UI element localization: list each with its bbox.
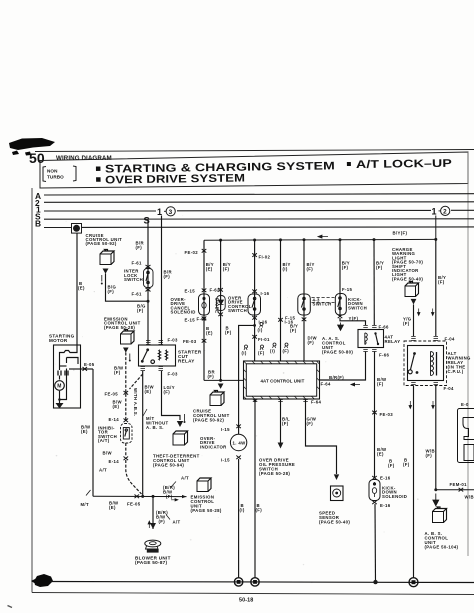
- svg-text:M/T: M/T: [81, 502, 89, 507]
- svg-text:MOTOR: MOTOR: [49, 338, 68, 343]
- pin pair (I)(F) on direct wire: [270, 343, 289, 354]
- svg-text:(I): (I): [270, 349, 275, 354]
- svg-text:(PAGE 50-87): (PAGE 50-87): [135, 560, 168, 565]
- ABS control unit connector (3D box): [433, 507, 447, 523]
- svg-text:E-0: E-0: [461, 402, 469, 407]
- svg-text:(F): (F): [258, 351, 265, 356]
- svg-text:(PAGE 50-28): (PAGE 50-28): [259, 471, 290, 476]
- connector FE-05 on wire: [135, 495, 140, 499]
- blower unit symbol: [145, 540, 161, 553]
- wire S to interlock switch: [147, 219, 149, 345]
- svg-text:50-18: 50-18: [239, 598, 253, 604]
- svg-text:(PAGE 50-28): (PAGE 50-28): [191, 508, 222, 513]
- svg-text:C.P.U.): C.P.U.): [448, 369, 464, 374]
- svg-text:FI-02: FI-02: [259, 255, 271, 260]
- svg-text:(E): (E): [206, 331, 213, 336]
- dashed wire B/W(F) emission to inhibitor: [125, 353, 127, 421]
- wire B(F) from 4AT unit to ground bus: [254, 399, 263, 578]
- svg-text:(PAGE 50-80): (PAGE 50-80): [322, 350, 353, 355]
- svg-text:F-61: F-61: [132, 292, 142, 297]
- ground bus wire: [50, 582, 474, 583]
- svg-text:F-03: F-03: [168, 338, 178, 343]
- connector FE-02: [185, 249, 207, 255]
- wire LG/Y(F) from relay to theft-deterrent unit: [162, 371, 181, 420]
- arrow to ABS unit: [433, 494, 439, 506]
- svg-text:F-04: F-04: [444, 386, 454, 391]
- svg-text:4AT CONTROL UNIT: 4AT CONTROL UNIT: [261, 378, 305, 383]
- connector I-16 bottom: [252, 316, 267, 325]
- svg-text:E-05: E-05: [84, 362, 95, 367]
- wire B/W(E) motor branch down: [92, 369, 94, 496]
- svg-text:(F): (F): [164, 390, 171, 395]
- svg-text:INDICATOR: INDICATOR: [200, 444, 227, 449]
- svg-text:F-61: F-61: [132, 261, 142, 266]
- svg-text:(A/T): (A/T): [98, 438, 110, 443]
- svg-text:(E): (E): [78, 286, 85, 291]
- connector I-15 (bottom): [236, 456, 241, 460]
- title box: [40, 152, 468, 188]
- svg-text:(F): (F): [403, 321, 410, 326]
- svg-text:E-14: E-14: [109, 459, 120, 464]
- branch to overdrive indicator: [239, 325, 255, 426]
- svg-text:F-64: F-64: [321, 382, 331, 387]
- BOTTOM: [50, 578, 474, 587]
- FOURAT: [200, 361, 350, 578]
- cruise control unit connector mid (3D box): [210, 391, 224, 406]
- svg-text:(PAGE 50-92): (PAGE 50-92): [86, 241, 117, 246]
- overdrive indicator lamp: [230, 434, 246, 450]
- 4AT control unit U1: [244, 361, 320, 399]
- junction at interlock output: [147, 300, 150, 303]
- svg-text:F-04: F-04: [445, 337, 455, 342]
- svg-text:(F): (F): [166, 494, 173, 499]
- connector E-05: [81, 362, 95, 371]
- cruise control unit connector (3D box): [100, 250, 114, 265]
- svg-text:(F): (F): [208, 374, 215, 379]
- wire W/B(F) relay to ABS unit: [435, 386, 437, 490]
- NON TURBO bracket label: [43, 166, 76, 182]
- main feed wire (B/Y) from node 1-2: [204, 216, 437, 242]
- 4AT relay: [358, 326, 384, 352]
- svg-text:F-62: F-62: [210, 288, 220, 293]
- svg-text:E-15: E-15: [185, 289, 196, 294]
- ground arrow in motor: [56, 403, 64, 409]
- svg-text:(F): (F): [426, 453, 433, 458]
- bus line 1 (mid): [177, 209, 431, 211]
- wire FEM-01 branch: [434, 482, 474, 500]
- svg-text:(E): (E): [109, 505, 116, 510]
- MIDTOP: [171, 240, 408, 582]
- arrow from emission box down: [123, 348, 129, 353]
- connector F-61 (bottom): [132, 288, 151, 297]
- connector FI-01: [252, 335, 270, 342]
- svg-text:SOLENOID: SOLENOID: [382, 494, 407, 499]
- svg-text:B/R(F): B/R(F): [329, 375, 344, 380]
- svg-text:(PAGE 50-92): (PAGE 50-92): [193, 418, 224, 423]
- connector ring (B(F) wire): [251, 578, 259, 586]
- svg-text:WITH A.B.S.: WITH A.B.S.: [133, 388, 138, 417]
- svg-text:F-15: F-15: [342, 287, 352, 292]
- title line 1: STARTING & CHARGING SYSTEM / A/T LOCK-UP: [96, 158, 452, 187]
- wire G/W(F) to speed sensor: [306, 399, 351, 525]
- connector F-62 (top): [210, 288, 223, 293]
- overdrive indicator branch wire: [200, 425, 247, 579]
- svg-text:(F): (F): [225, 330, 232, 335]
- connector E-14 (top): [109, 417, 129, 422]
- connector F-62 (bottom): [197, 313, 223, 322]
- svg-text:M: M: [57, 384, 61, 390]
- wire B/Y(F) diode branch: [220, 240, 222, 380]
- svg-text:(F): (F): [342, 265, 349, 270]
- emission control unit connector lower (3D box): [197, 478, 211, 492]
- diode D1: [215, 296, 226, 314]
- svg-text:FE-03: FE-03: [380, 412, 394, 417]
- bus line 1 (right of node 1-2): [451, 209, 474, 211]
- svg-text:(F): (F): [388, 463, 395, 468]
- svg-text:WIRING DIAGRAM: WIRING DIAGRAM: [56, 155, 112, 162]
- svg-text:SOLENOID: SOLENOID: [171, 310, 196, 315]
- wire label B(E): [78, 281, 85, 291]
- BORDERS: [8, 152, 474, 608]
- connector E-16 (bottom): [372, 501, 391, 509]
- 4AT unit bottom pin hatches: [253, 400, 308, 402]
- wire B/Y(E) overdrive cancel solenoid: [203, 240, 205, 380]
- LEFTCOL: [49, 216, 222, 566]
- svg-text:(I): (I): [242, 351, 247, 356]
- svg-text:I-15: I-15: [221, 458, 230, 463]
- svg-text:(PAGE 50-104): (PAGE 50-104): [425, 545, 459, 550]
- alternator (page edge, E-01): [458, 402, 474, 463]
- svg-text:(F): (F): [308, 340, 315, 345]
- svg-text:(E): (E): [81, 429, 88, 434]
- svg-text:FE-02: FE-02: [185, 250, 199, 255]
- BUS: [35, 191, 474, 242]
- emission control unit note (left): [104, 317, 141, 331]
- svg-text:RELAY: RELAY: [385, 339, 401, 344]
- wire 4AT relay direct feed: [373, 240, 375, 325]
- svg-text:OVER DRIVE SYSTEM: OVER DRIVE SYSTEM: [105, 173, 245, 187]
- wire B(E) from node 6 to starting motor: [76, 233, 78, 345]
- scan speckle noise: [55, 212, 451, 583]
- svg-text:(PAGE 50-28): (PAGE 50-28): [104, 325, 135, 330]
- wire label B/G(F) below junction: [137, 304, 146, 314]
- connector E-14 (bottom): [109, 457, 129, 465]
- connector F-15 (4-3): [285, 316, 306, 322]
- title line 2: OVER DRIVE SYSTEM: [96, 177, 101, 182]
- svg-text:A/T: A/T: [173, 520, 181, 525]
- wire B/L(F) to oil pressure switch: [259, 399, 295, 476]
- stray mark bottom-left: [8, 606, 13, 608]
- arrow from cruise box down: [103, 269, 109, 274]
- svg-text:SWITCH: SWITCH: [348, 305, 367, 310]
- wire label B/R(F): [136, 241, 145, 251]
- svg-text:B/Y(F): B/Y(F): [393, 231, 408, 236]
- page edge ink blob top-left: [9, 138, 55, 150]
- svg-text:W/B: W/B: [465, 495, 474, 500]
- wire to ground bus: [238, 459, 240, 578]
- bus line A: [44, 194, 474, 195]
- charge warning light note: [392, 247, 423, 281]
- direction ticks: [417, 309, 420, 316]
- svg-text:(I): (I): [258, 328, 263, 333]
- connector F-61 (top): [132, 261, 151, 269]
- wire B/G(F) cruise tap: [106, 274, 149, 302]
- lower distribution wire: [81, 490, 187, 510]
- M/T WITHOUT A.B.S. note: [146, 416, 169, 430]
- connector FE-05: [105, 391, 129, 397]
- A/T dashed continues to M/T junction: [126, 460, 142, 494]
- svg-text:(E): (E): [206, 267, 213, 272]
- svg-text:SWITCH: SWITCH: [124, 277, 143, 282]
- connector FI-02: [252, 253, 270, 259]
- arrow to A.A.S. unit: [338, 323, 344, 331]
- svg-text:(F): (F): [114, 370, 121, 375]
- svg-text:F-62: F-62: [197, 317, 207, 322]
- svg-text:(I): (I): [240, 508, 245, 513]
- svg-text:F-03: F-03: [168, 372, 178, 377]
- interlock switch: [144, 269, 154, 288]
- overdrive control switch: [248, 294, 261, 315]
- theft-deterrent control unit connector (3D box): [173, 431, 188, 445]
- wire from kick-down to 4AT relay: [340, 318, 366, 325]
- node 1-2 label: [432, 206, 450, 216]
- wire B/W(F) relay to kick-down solenoid: [374, 352, 376, 479]
- wire Y/G(F) to ALT warning relay: [413, 305, 415, 337]
- left page border: [31, 188, 33, 593]
- svg-text:B/W: B/W: [103, 451, 113, 456]
- direction arrow on main feed: [318, 235, 328, 238]
- wire from node 1-3 down to relay: [161, 216, 163, 346]
- svg-text:E-16: E-16: [380, 476, 391, 481]
- connector I-16 top: [252, 290, 269, 297]
- ALT warning relay (in the C.P.U.): [404, 337, 447, 386]
- svg-text:RELAY: RELAY: [178, 359, 195, 364]
- connector I-16 on direct wire: [278, 318, 293, 325]
- connector E-15 (top): [185, 289, 207, 294]
- wire BR(F) into 4AT unit: [204, 379, 244, 381]
- wire B/R(F) 4AT relay to 4AT unit: [320, 352, 366, 381]
- connector FE-03 on solenoid wire: [202, 339, 207, 343]
- svg-text:(F): (F): [438, 280, 445, 285]
- charge warning connector (3D box): [405, 282, 419, 297]
- svg-text:(F): (F): [307, 267, 314, 272]
- HEADER: [9, 138, 474, 188]
- svg-text:F-15: F-15: [285, 316, 295, 321]
- svg-text:1. 4W: 1. 4W: [233, 441, 247, 446]
- svg-text:B: B: [35, 219, 41, 229]
- speed sensor: [331, 486, 344, 501]
- junction dot (kick-down solenoid wire): [373, 580, 377, 584]
- starting motor M: [54, 345, 81, 409]
- pin pair (I)(F): [242, 345, 265, 356]
- svg-text:I-15: I-15: [221, 427, 230, 432]
- connector ring (indicator wire): [234, 578, 242, 586]
- right page border: [467, 152, 469, 556]
- svg-text:(PAGE 50-40): (PAGE 50-40): [319, 520, 350, 525]
- svg-text:DIODE: DIODE: [215, 298, 220, 313]
- svg-text:3: 3: [169, 209, 173, 216]
- svg-text:FE-05: FE-05: [127, 502, 141, 507]
- svg-text:F-66: F-66: [379, 325, 389, 330]
- wire (B)(F) relay to ground bus: [413, 386, 415, 578]
- node 1-3 label: [157, 207, 175, 217]
- bottom page border: [32, 593, 474, 595]
- wire to blower unit: [152, 496, 154, 529]
- svg-text:NON: NON: [47, 169, 58, 174]
- svg-text:S: S: [144, 214, 150, 225]
- svg-text:(F): (F): [256, 508, 263, 513]
- svg-text:(PAGE 50-40): (PAGE 50-40): [392, 276, 423, 281]
- cruise control unit note (top): [86, 233, 123, 246]
- svg-text:2: 2: [443, 208, 447, 215]
- wire B/Y(F) from node 1-2 to ALT warning relay: [435, 239, 437, 336]
- wire 4-3 switch: [303, 240, 305, 361]
- svg-text:A. B. S.: A. B. S.: [146, 425, 164, 430]
- svg-text:(F): (F): [159, 519, 166, 524]
- svg-text:(PAGE 50-94): (PAGE 50-94): [153, 463, 184, 468]
- svg-text:50: 50: [29, 150, 45, 166]
- svg-text:(F): (F): [282, 421, 289, 426]
- connector FE-03: [372, 411, 393, 417]
- svg-text:(F): (F): [290, 328, 297, 333]
- bus line B (right of node 6): [82, 226, 474, 229]
- arrow below charge warning box: [411, 299, 417, 305]
- svg-text:(I): (I): [283, 267, 288, 272]
- svg-text:F-64: F-64: [311, 400, 321, 405]
- svg-text:(E): (E): [145, 389, 152, 394]
- connector E-15 (bottom): [185, 317, 207, 323]
- svg-text:(F): (F): [223, 267, 230, 272]
- wire B/W(E) M/T from relay: [142, 371, 144, 496]
- svg-text:(F): (F): [403, 462, 410, 467]
- svg-text:A/T LOCK–UP: A/T LOCK–UP: [356, 158, 452, 171]
- svg-text:A/T: A/T: [99, 468, 107, 473]
- svg-text:(F): (F): [307, 421, 314, 426]
- svg-text:6: 6: [75, 226, 78, 231]
- svg-text:E-14: E-14: [109, 417, 120, 422]
- connector E-16 (top): [372, 476, 391, 481]
- junction dots on main feed: [219, 239, 222, 242]
- svg-text:(F): (F): [136, 245, 143, 250]
- svg-text:F-66: F-66: [379, 353, 389, 358]
- svg-text:A/T: A/T: [181, 476, 189, 481]
- 4-3 switch: [298, 294, 311, 315]
- bus line 1 (left of node 1-3): [44, 210, 156, 212]
- svg-text:1: 1: [432, 207, 437, 217]
- svg-text:(F): (F): [377, 382, 384, 387]
- svg-text:(F): (F): [164, 274, 171, 279]
- wire kick-down switch: [339, 240, 341, 316]
- top rule: [35, 150, 474, 152]
- arrow to cruise unit: [218, 384, 224, 389]
- wire solenoid to ground bus: [374, 504, 377, 582]
- svg-text:FEM-01: FEM-01: [450, 482, 468, 487]
- emission control unit connector (3D box): [121, 330, 135, 345]
- kick-down switch: [335, 294, 346, 316]
- RIGHTCOL: [392, 239, 474, 577]
- bus line S: [44, 218, 474, 220]
- wire label (B/R) B/W (F) upper: [163, 476, 189, 500]
- svg-text:(F): (F): [137, 308, 144, 313]
- linkage dashes: [312, 298, 335, 303]
- svg-text:I-16: I-16: [261, 291, 270, 296]
- bus line B (left of node 6): [44, 227, 72, 229]
- svg-text:(F): (F): [108, 289, 115, 294]
- starter cut relay: [139, 341, 176, 371]
- with A.B.S. dashed branch from relay: [130, 374, 143, 389]
- inhibitor switch (A/T): [121, 424, 133, 444]
- svg-text:FE-05: FE-05: [105, 392, 119, 397]
- svg-text:FI-01: FI-01: [258, 337, 270, 342]
- bottom-left ink blob: [34, 574, 53, 587]
- node 6 connector box on bus B: [72, 224, 82, 234]
- kick-down solenoid: [369, 480, 380, 501]
- bus line 2: [44, 201, 474, 204]
- svg-text:SWITCH: SWITCH: [228, 308, 247, 313]
- svg-text:(F): (F): [283, 349, 290, 354]
- svg-text:E-15: E-15: [185, 318, 196, 323]
- svg-text:TURBO: TURBO: [47, 175, 64, 180]
- starting motor label: [49, 334, 75, 344]
- wire overdrive control switch: [254, 240, 256, 361]
- svg-text:FE-03: FE-03: [183, 339, 197, 344]
- svg-text:(E): (E): [113, 404, 120, 409]
- svg-text:(E): (E): [377, 452, 384, 457]
- connector I-15 (top): [236, 425, 241, 429]
- overdrive cancel solenoid: [199, 294, 210, 315]
- svg-text:(F): (F): [376, 265, 383, 270]
- connector ring (relay ground wire): [409, 578, 418, 587]
- wire B/Y(I) direct: [280, 240, 282, 361]
- svg-text:E-16: E-16: [380, 503, 391, 508]
- wire label B/R(F): [164, 270, 173, 280]
- pin symbol (I): [258, 323, 264, 333]
